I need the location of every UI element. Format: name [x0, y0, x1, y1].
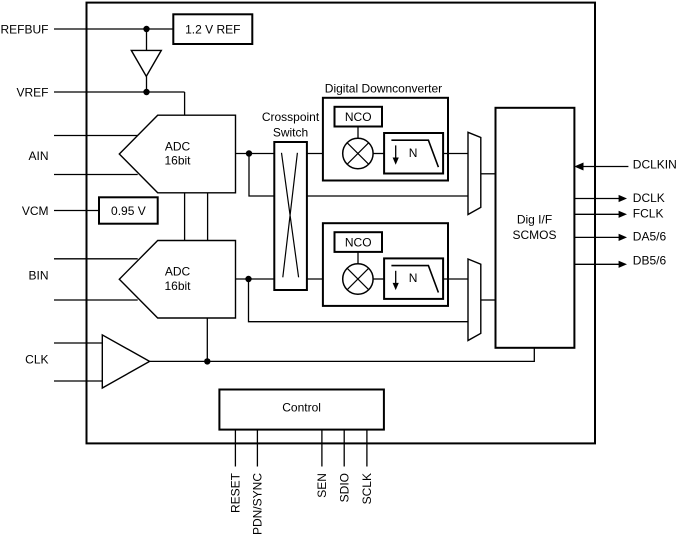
wire NCO A to mixer A	[357, 127, 359, 139]
wire VREF	[54, 91, 185, 93]
svg-text:FCLK: FCLK	[633, 207, 664, 221]
wire clock buffer to ADC B	[206, 318, 208, 361]
ADC A 16bit	[119, 115, 235, 193]
wire SCLK pin	[366, 430, 368, 467]
wire serializer A to Dig I/F	[481, 173, 496, 175]
svg-text:SDIO: SDIO	[338, 473, 352, 502]
filter A decimate by N	[384, 133, 443, 174]
wire mixer B to filter B	[373, 278, 384, 280]
svg-text:DB5/6: DB5/6	[633, 253, 667, 267]
wire BIN+	[54, 258, 138, 260]
mixer A	[343, 138, 373, 168]
mixer B	[343, 264, 373, 294]
wire FCLK	[574, 213, 620, 215]
arrowhead DB5/6	[619, 261, 627, 268]
crosspoint switch label	[262, 110, 320, 140]
wire switch to DDC B mixer	[307, 278, 343, 280]
wire AIN-	[54, 174, 138, 176]
serializer A	[468, 132, 481, 214]
wire buffer output to VREF node	[146, 76, 148, 92]
svg-text:Crosspoint: Crosspoint	[262, 110, 320, 124]
wire SDIO pin	[343, 430, 345, 467]
svg-text:N: N	[409, 146, 418, 160]
arrowhead DA5/6	[619, 234, 627, 241]
wire clock buffer output to Dig I/F	[150, 348, 535, 362]
svg-text:0.95 V: 0.95 V	[111, 204, 146, 218]
svg-text:ADC: ADC	[165, 265, 191, 279]
svg-text:NCO: NCO	[345, 110, 372, 124]
junction VREF node	[143, 89, 149, 95]
svg-text:16bit: 16bit	[164, 279, 191, 293]
buffer A1 reference buffer	[131, 50, 161, 76]
wire CLK-	[54, 380, 102, 382]
main outline	[87, 3, 596, 444]
Control block	[219, 390, 384, 430]
svg-text:VCM: VCM	[22, 204, 49, 218]
wire serializer B to Dig I/F	[481, 299, 496, 301]
svg-text:CLK: CLK	[25, 353, 48, 367]
svg-text:REFBUF: REFBUF	[1, 22, 49, 36]
wire ADC A bypass to switch	[249, 154, 274, 197]
svg-text:SCLK: SCLK	[360, 473, 374, 504]
wire filter B to serializer B	[443, 278, 468, 280]
junction ADC B output node	[245, 276, 251, 282]
wire CLK+	[54, 342, 102, 344]
svg-text:DA5/6: DA5/6	[633, 230, 667, 244]
svg-text:RESET: RESET	[229, 472, 243, 513]
wire DB5/6	[574, 263, 620, 265]
block 0.95 V common-mode reference	[99, 197, 158, 223]
wire ADC A output	[236, 153, 275, 155]
wire REFBUF to 1.2V REF block	[54, 28, 173, 30]
wire DCLKIN	[583, 166, 629, 168]
wire NCO B to mixer B	[357, 252, 359, 264]
svg-text:16bit: 16bit	[164, 154, 191, 168]
DDC A block	[323, 98, 448, 181]
Dig I/F SCMOS block	[496, 108, 575, 348]
ADC B 16bit	[119, 241, 235, 319]
svg-text:DCLK: DCLK	[633, 191, 665, 205]
svg-text:BIN: BIN	[28, 269, 48, 283]
block 1.2 V REF	[173, 14, 252, 44]
wire RESET pin	[234, 430, 236, 467]
svg-text:Switch: Switch	[273, 126, 308, 140]
junction clock node	[204, 358, 210, 364]
arrowhead DCLK	[619, 195, 627, 202]
wire ADC B output	[236, 278, 275, 280]
junction ADC A output node	[246, 150, 252, 156]
NCO B block	[335, 232, 383, 252]
wire DCLK	[574, 198, 620, 200]
arrowhead FCLK	[619, 211, 627, 218]
buffer A2 clock buffer	[102, 335, 149, 388]
svg-text:1.2 V REF: 1.2 V REF	[185, 23, 240, 37]
svg-text:N: N	[409, 271, 418, 285]
wire switch bypass A to serializer A	[307, 195, 468, 197]
svg-text:PDN/SYNC: PDN/SYNC	[251, 473, 265, 535]
svg-text:Dig I/F: Dig I/F	[517, 212, 552, 226]
filter B decimate by N	[384, 258, 443, 299]
svg-text:Control: Control	[282, 401, 321, 415]
wire DA5/6	[574, 236, 620, 238]
wire PDN/SYNC pin	[256, 430, 258, 467]
arrowhead DCLKIN	[574, 163, 583, 171]
junction REFBUF node	[143, 26, 149, 32]
wire SEN pin	[321, 430, 323, 467]
svg-text:VREF: VREF	[16, 85, 48, 99]
svg-text:SCMOS: SCMOS	[512, 228, 556, 242]
wire BIN-	[54, 299, 138, 301]
crosspoint switch block	[274, 142, 307, 290]
wire VREF between ADC A and ADC B	[184, 193, 186, 241]
wire filter A to serializer A	[443, 153, 468, 155]
wire VREF down to ADC A	[184, 92, 186, 115]
wire AIN+	[54, 135, 138, 137]
wire switch to DDC A mixer	[307, 153, 343, 155]
serializer B	[468, 259, 481, 341]
NCO A block	[335, 107, 383, 127]
wire clock between ADC A and ADC B	[207, 193, 209, 241]
wire REFBUF node to buffer input	[146, 29, 148, 50]
svg-text:ADC: ADC	[165, 140, 191, 154]
wire VCM	[54, 210, 99, 212]
svg-text:SEN: SEN	[315, 473, 329, 498]
svg-text:NCO: NCO	[345, 235, 372, 249]
svg-text:AIN: AIN	[28, 149, 48, 163]
wire ADC B bypass under switch to serializer B	[249, 279, 469, 322]
DDC B block	[323, 223, 448, 306]
svg-text:Digital Downconverter: Digital Downconverter	[325, 82, 442, 96]
wire mixer A to filter A	[373, 153, 384, 155]
svg-text:DCLKIN: DCLKIN	[633, 158, 677, 172]
